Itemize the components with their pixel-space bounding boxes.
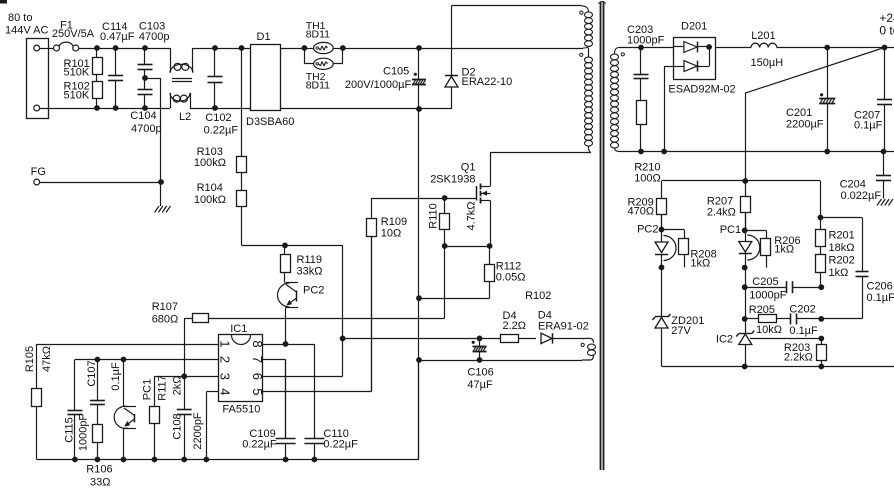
resistor R106 xyxy=(86,425,112,489)
svg-text:PC2: PC2 xyxy=(637,224,658,236)
opto-led PC2 xyxy=(637,224,676,261)
svg-text:47kΩ: 47kΩ xyxy=(41,346,53,372)
svg-text:C204: C204 xyxy=(840,179,866,191)
opto-transistor PC1 xyxy=(114,379,153,429)
svg-text:6: 6 xyxy=(250,373,265,380)
node C205 tap xyxy=(742,284,748,290)
capacitor C205 xyxy=(745,276,821,302)
wire bottom AC rail xyxy=(40,108,170,110)
resistor R102 xyxy=(64,78,103,108)
capacitor C110 xyxy=(304,344,358,460)
svg-text:1000pF: 1000pF xyxy=(749,290,787,302)
node return R112 xyxy=(416,295,422,301)
svg-text:8D11: 8D11 xyxy=(306,29,330,41)
svg-text:2200pF: 2200pF xyxy=(192,412,204,450)
svg-text:0 to: 0 to xyxy=(879,24,894,38)
svg-text:2200µF: 2200µF xyxy=(786,119,824,131)
wire terminal to fuse xyxy=(40,48,54,50)
svg-text:0.22µF: 0.22µF xyxy=(323,439,358,451)
capacitor C207 xyxy=(854,48,892,152)
node C102 xyxy=(212,45,218,111)
node R119 top xyxy=(282,243,288,249)
wire FG xyxy=(40,182,162,184)
svg-text:0.05Ω: 0.05Ω xyxy=(496,272,526,284)
opto-led PC1 xyxy=(720,224,760,260)
resistor R103 xyxy=(194,48,247,183)
svg-text:33kΩ: 33kΩ xyxy=(297,266,323,278)
resistor R112 xyxy=(485,246,526,298)
wire R104 to Vcc node xyxy=(242,245,344,338)
svg-text:L201: L201 xyxy=(751,30,775,42)
svg-text:1kΩ: 1kΩ xyxy=(829,267,849,279)
capacitor C114 xyxy=(100,21,135,108)
svg-text:R112: R112 xyxy=(496,260,521,272)
label R102 xyxy=(525,290,551,302)
op-amp IC1 FA5510 xyxy=(219,323,263,415)
resistor R206 xyxy=(745,230,800,267)
svg-text:80 to: 80 to xyxy=(8,12,32,24)
inductor L201 xyxy=(751,30,784,69)
label +24V output xyxy=(879,11,894,38)
node C103/C104 midpoint xyxy=(142,45,148,111)
aux winding xyxy=(581,338,595,360)
capacitor C201 xyxy=(786,48,835,152)
resistor R101 xyxy=(64,48,103,79)
svg-text:2: 2 xyxy=(218,356,233,363)
node Vcc aux xyxy=(340,336,346,342)
resistor D4 2.2 xyxy=(501,310,537,343)
svg-text:PC1: PC1 xyxy=(142,379,154,400)
svg-text:D1: D1 xyxy=(257,31,271,43)
svg-text:150µH: 150µH xyxy=(751,57,784,69)
wire secondary 0V rail xyxy=(620,151,894,153)
wire primary return vertical xyxy=(418,109,420,460)
svg-text:200V/1000µF: 200V/1000µF xyxy=(345,79,412,91)
svg-text:R205: R205 xyxy=(749,304,775,316)
svg-text:4700p: 4700p xyxy=(139,31,170,43)
pin 7 label xyxy=(250,356,265,363)
capacitor C104 xyxy=(130,78,161,135)
transformer primary clamp winding xyxy=(580,6,593,48)
svg-text:C206: C206 xyxy=(867,281,893,293)
svg-text:R102: R102 xyxy=(525,290,551,302)
node R110 top xyxy=(442,195,448,201)
diode pack D201 xyxy=(668,21,735,96)
capacitor C109 xyxy=(242,360,295,460)
resistor R209 xyxy=(628,181,667,230)
svg-text:R105: R105 xyxy=(24,346,36,372)
core top mark xyxy=(599,2,606,4)
resistor R104 xyxy=(194,182,247,246)
node aux return junctions xyxy=(416,357,482,363)
resistor R105 xyxy=(24,346,53,460)
node C114 xyxy=(113,45,119,111)
node C107 top xyxy=(95,357,101,363)
nodes secondary ground xyxy=(742,364,824,370)
svg-text:100kΩ: 100kΩ xyxy=(194,157,226,169)
transformer secondary winding xyxy=(611,48,625,152)
node C106 plus xyxy=(477,336,483,342)
thermistor TH2 xyxy=(304,48,342,91)
common-mode choke L2 xyxy=(170,48,193,123)
wire pin6 to Vcc node xyxy=(263,338,343,376)
pin 4 label xyxy=(218,388,233,395)
node D201 cathodes xyxy=(706,44,712,50)
terminal block TB1 xyxy=(27,39,49,119)
svg-text:1000pF: 1000pF xyxy=(627,34,665,46)
wire pin8 Vcc xyxy=(263,344,314,346)
wire clamp top xyxy=(451,5,581,7)
wire pin7 xyxy=(263,360,286,439)
svg-text:144V AC: 144V AC xyxy=(5,25,48,37)
svg-text:10Ω: 10Ω xyxy=(381,228,401,240)
wire TH to C105 to transformer xyxy=(304,48,583,50)
svg-text:PC1: PC1 xyxy=(720,224,741,236)
svg-text:510K: 510K xyxy=(64,90,90,102)
ground rail nodes xyxy=(72,457,317,463)
node C105 bottom xyxy=(416,106,422,112)
node PC2 led bottom xyxy=(659,254,665,317)
svg-text:Q1: Q1 xyxy=(461,162,476,174)
node PC1 led top xyxy=(742,213,748,242)
wire PC2 emitter to pin8 xyxy=(285,308,287,345)
pin 6 label xyxy=(250,373,265,380)
svg-text:D201: D201 xyxy=(681,21,707,33)
svg-text:18kΩ: 18kΩ xyxy=(829,242,855,254)
pin 8 label xyxy=(250,340,265,347)
svg-text:C104: C104 xyxy=(130,110,156,122)
node PC2 led top xyxy=(659,214,665,242)
svg-text:5: 5 xyxy=(250,388,265,395)
ground rail bottom xyxy=(37,360,419,460)
wire secondary ground rail xyxy=(662,366,894,368)
transformer core xyxy=(601,2,604,470)
resistor R107 xyxy=(152,301,209,326)
svg-text:4.7kΩ: 4.7kΩ xyxy=(465,201,477,230)
wire secondary top rail xyxy=(619,47,674,49)
svg-text:27V: 27V xyxy=(671,325,691,337)
wire sense bus xyxy=(662,181,821,230)
node pin3 C108 xyxy=(181,373,187,379)
svg-text:FG: FG xyxy=(31,166,46,178)
AC input label xyxy=(5,12,48,37)
node R205 tap xyxy=(742,316,748,322)
wire D1 out top xyxy=(280,48,304,50)
svg-text:C201: C201 xyxy=(786,107,812,119)
svg-text:33Ω: 33Ω xyxy=(90,477,110,489)
svg-text:2.4kΩ: 2.4kΩ xyxy=(707,206,736,218)
svg-text:R202: R202 xyxy=(829,255,855,267)
svg-text:0.47µF: 0.47µF xyxy=(100,31,135,43)
svg-text:PC2: PC2 xyxy=(303,284,324,296)
svg-text:3: 3 xyxy=(218,373,233,380)
resistor R205 xyxy=(745,304,791,336)
wire gate drive xyxy=(372,198,477,200)
svg-text:47µF: 47µF xyxy=(467,379,493,391)
zener ZD201 xyxy=(653,314,705,367)
svg-text:8: 8 xyxy=(250,340,265,347)
opto-transistor PC2 xyxy=(278,283,325,308)
node C201 top xyxy=(824,45,830,51)
svg-text:680Ω: 680Ω xyxy=(152,314,179,326)
svg-text:2.2kΩ: 2.2kΩ xyxy=(784,352,813,364)
wire D201 to L201 xyxy=(715,47,751,49)
wire D201 lower input xyxy=(664,66,674,151)
svg-text:470Ω: 470Ω xyxy=(628,206,655,218)
svg-text:100kΩ: 100kΩ xyxy=(194,194,226,206)
svg-text:ERA22-10: ERA22-10 xyxy=(462,76,513,88)
resistor R201 xyxy=(816,230,855,255)
svg-text:4700p: 4700p xyxy=(131,123,162,135)
node C105 top xyxy=(416,45,422,51)
svg-text:R201: R201 xyxy=(829,230,855,242)
svg-text:2.2Ω: 2.2Ω xyxy=(503,320,527,332)
node C203 top xyxy=(638,45,644,51)
capacitor C103 xyxy=(138,21,170,78)
diode D4 ERA91-02 xyxy=(538,309,589,343)
thermistor TH1 xyxy=(306,20,334,53)
svg-text:R110: R110 xyxy=(427,203,439,228)
svg-text:C105: C105 xyxy=(383,66,409,78)
wire bottom rail D1 to D2 xyxy=(280,108,451,110)
svg-text:1kΩ: 1kΩ xyxy=(774,244,794,256)
node FG junction xyxy=(158,179,164,206)
resistor R117 2k xyxy=(150,375,184,459)
svg-text:R104: R104 xyxy=(197,182,223,194)
resistor R202 xyxy=(816,255,855,288)
pin 5 label xyxy=(250,388,265,395)
node R101 top xyxy=(94,45,100,111)
svg-text:IC2: IC2 xyxy=(716,334,733,346)
wire Q1 drain to transformer xyxy=(490,152,591,186)
wire top AC rail xyxy=(79,48,170,50)
svg-text:7: 7 xyxy=(250,356,265,363)
svg-text:C108: C108 xyxy=(171,413,183,439)
resistor R207 xyxy=(707,181,751,230)
shunt regulator IC2 xyxy=(716,331,821,367)
resistor R110 4.7k xyxy=(427,198,477,246)
wire feedback diagonal xyxy=(745,48,884,182)
wire pin1 xyxy=(37,344,220,389)
resistor R208 xyxy=(662,230,717,270)
terminal FG xyxy=(31,166,46,185)
capacitor C105 xyxy=(345,48,426,109)
wire midpoint to ground xyxy=(145,78,161,182)
svg-text:L2: L2 xyxy=(179,111,191,123)
node sense divider top xyxy=(818,215,824,221)
svg-text:ESAD92M-02: ESAD92M-02 xyxy=(668,84,735,96)
bridge rectifier D1 xyxy=(246,31,294,128)
svg-text:1000pF: 1000pF xyxy=(77,414,89,452)
svg-text:1kΩ: 1kΩ xyxy=(690,258,710,270)
wire pin2 xyxy=(75,359,219,361)
resistor R119 xyxy=(281,245,323,282)
ground chassis xyxy=(155,206,171,213)
diode D2 xyxy=(445,6,512,109)
node R103 column top xyxy=(239,45,245,51)
svg-text:2SK1938: 2SK1938 xyxy=(430,174,475,186)
wire R112 to return xyxy=(419,298,490,300)
wire pin3 xyxy=(155,376,220,378)
svg-text:100Ω: 100Ω xyxy=(634,173,661,185)
pin 2 label xyxy=(218,356,233,363)
capacitor C206 xyxy=(820,218,894,319)
svg-text:4: 4 xyxy=(218,388,233,395)
resistor R109 xyxy=(367,198,408,391)
svg-text:0.1µF: 0.1µF xyxy=(110,362,122,391)
svg-text:C202: C202 xyxy=(789,304,815,316)
svg-text:0.1µF: 0.1µF xyxy=(789,325,818,337)
capacitor C203 xyxy=(627,24,665,101)
svg-text:250V/5A: 250V/5A xyxy=(52,28,95,40)
capacitor C102 xyxy=(204,48,239,137)
svg-text:C205: C205 xyxy=(752,276,778,288)
wire aux vcc xyxy=(343,338,501,340)
svg-text:C107: C107 xyxy=(86,360,98,386)
wire output plus rail xyxy=(777,47,894,49)
node divider taps xyxy=(818,284,824,341)
node pin8 PC2 xyxy=(283,341,289,347)
wire PC1 emitter xyxy=(123,429,125,460)
svg-text:0.022µF: 0.022µF xyxy=(841,190,882,202)
wire PC1 collector xyxy=(123,360,125,407)
svg-text:510K: 510K xyxy=(64,67,90,79)
wire aux return xyxy=(419,360,582,362)
svg-text:FA5510: FA5510 xyxy=(222,403,260,415)
svg-text:1: 1 xyxy=(218,340,233,347)
transformer primary main winding xyxy=(580,48,593,152)
ground chassis C204 xyxy=(877,199,893,206)
wire Q1 source xyxy=(490,201,492,247)
pin 1 label xyxy=(218,340,233,347)
corner mark xyxy=(0,0,7,4)
svg-text:2kΩ: 2kΩ xyxy=(172,376,184,396)
svg-text:ERA91-02: ERA91-02 xyxy=(538,321,589,333)
svg-text:IC1: IC1 xyxy=(230,323,247,335)
capacitor C107 xyxy=(86,360,122,425)
capacitor C108 xyxy=(171,376,204,459)
node PC1 collector xyxy=(121,357,127,363)
svg-text:C106: C106 xyxy=(467,367,493,379)
wire current sense to R107 xyxy=(208,246,445,319)
wire source node xyxy=(445,246,490,248)
svg-text:0.22µF: 0.22µF xyxy=(242,439,277,451)
capacitor C204 xyxy=(840,152,891,203)
wire pin5 to R109 xyxy=(263,237,372,392)
capacitor C202 xyxy=(789,304,821,338)
svg-text:R107: R107 xyxy=(152,301,178,313)
wire pin4 to ground xyxy=(206,392,219,460)
svg-text:D3SBA60: D3SBA60 xyxy=(246,116,294,128)
svg-text:R117: R117 xyxy=(156,375,168,400)
node output sense xyxy=(882,45,888,51)
svg-text:R106: R106 xyxy=(86,464,112,476)
node TH junctions xyxy=(302,45,346,51)
resistor R210 xyxy=(634,101,661,185)
capacitor C106 xyxy=(467,338,493,391)
svg-text:R119: R119 xyxy=(297,254,322,266)
svg-text:C115: C115 xyxy=(63,417,75,442)
svg-text:R109: R109 xyxy=(381,216,407,228)
wire R107 to pin3 node xyxy=(184,318,186,376)
svg-text:0.22µF: 0.22µF xyxy=(204,125,239,137)
svg-text:0.1µF: 0.1µF xyxy=(854,120,883,132)
svg-text:8D11: 8D11 xyxy=(306,79,330,91)
mosfet Q1 xyxy=(430,162,490,204)
capacitor C115 xyxy=(63,360,89,460)
node PC1 led bottom xyxy=(742,254,748,334)
wire L2 to D1 bottom xyxy=(190,108,251,110)
fuse F1 xyxy=(52,19,95,51)
node source junction xyxy=(442,243,493,249)
wire L2 to D1 top xyxy=(193,48,251,50)
resistor R203 xyxy=(784,339,827,367)
node sense bus R207 xyxy=(742,178,748,184)
svg-text:C102: C102 xyxy=(205,112,231,124)
svg-text:0.1µF: 0.1µF xyxy=(867,292,894,304)
svg-text:10kΩ: 10kΩ xyxy=(756,324,782,336)
pin 3 label xyxy=(218,373,233,380)
nodes 0V rail xyxy=(638,149,886,155)
svg-text:R210: R210 xyxy=(634,161,660,173)
